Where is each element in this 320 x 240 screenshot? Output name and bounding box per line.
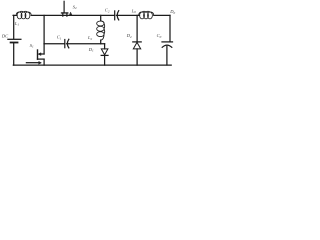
wire bottom rail xyxy=(13,64,171,66)
capacitor C1 (series, middle rail; straight + curved plate) xyxy=(64,40,66,48)
diode D1 (middle, from middle rail down to bottom rail, pointing down) xyxy=(104,44,106,49)
diode D2 (right, from top rail down to bottom rail, pointing up) xyxy=(136,15,138,41)
svg-text:C0: C0 xyxy=(157,33,162,39)
switch S2 (top rail, gate lead + bar + legs + arrow) xyxy=(63,1,65,12)
svg-text:L0: L0 xyxy=(131,8,137,14)
svg-text:L2: L2 xyxy=(87,35,93,41)
capacitor C0 (output, straight top plate + curved bottom plate) xyxy=(162,41,173,43)
wire from top rail down to middle rail (node at x=44) xyxy=(43,15,45,43)
battery DC source (long + short plate) xyxy=(8,38,21,40)
wire top rail from L0 to top-right corner xyxy=(154,14,170,16)
svg-text:C1: C1 xyxy=(57,35,62,41)
switch S1 (vertical branch: lead, source arrow, channel bar, zigzag, gate) xyxy=(43,44,45,54)
wire top rail from top-left corner to switch S2 xyxy=(13,14,114,16)
svg-text:S2: S2 xyxy=(73,4,77,10)
wire middle rail from C1 to D1 junction xyxy=(67,43,105,45)
svg-text:L1: L1 xyxy=(14,21,20,27)
wire left edge bottom (battery to bottom rail) xyxy=(13,43,15,65)
wire top rail from C2 to coil L0 (junction with D2 at x=137) xyxy=(116,14,139,16)
inductor L2 (vertical coil from top rail to middle rail) xyxy=(97,15,105,43)
inductor L1 (top-left coil) xyxy=(16,11,31,19)
svg-text:DC: DC xyxy=(1,34,9,39)
wire middle rail from S1 to capacitor C1 xyxy=(44,43,64,45)
svg-text:S1: S1 xyxy=(30,43,34,49)
capacitor C2 (series, top rail; straight + curved plate) xyxy=(114,11,116,20)
svg-text:D1: D1 xyxy=(88,47,94,53)
wire right edge (corner down to output cap) xyxy=(169,15,171,41)
inductor L0 (top-right coil) xyxy=(139,11,154,19)
svg-text:D2: D2 xyxy=(126,33,132,39)
svg-text:D0: D0 xyxy=(169,9,175,15)
svg-text:C2: C2 xyxy=(105,8,110,14)
wire left edge top (corner to battery) xyxy=(13,15,15,39)
